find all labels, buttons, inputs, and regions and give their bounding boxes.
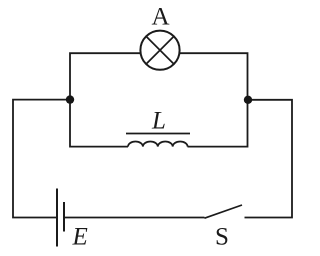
svg-text:S: S (215, 224, 229, 251)
svg-text:E: E (72, 224, 88, 251)
svg-text:A: A (151, 4, 169, 31)
svg-text:L: L (151, 107, 166, 134)
